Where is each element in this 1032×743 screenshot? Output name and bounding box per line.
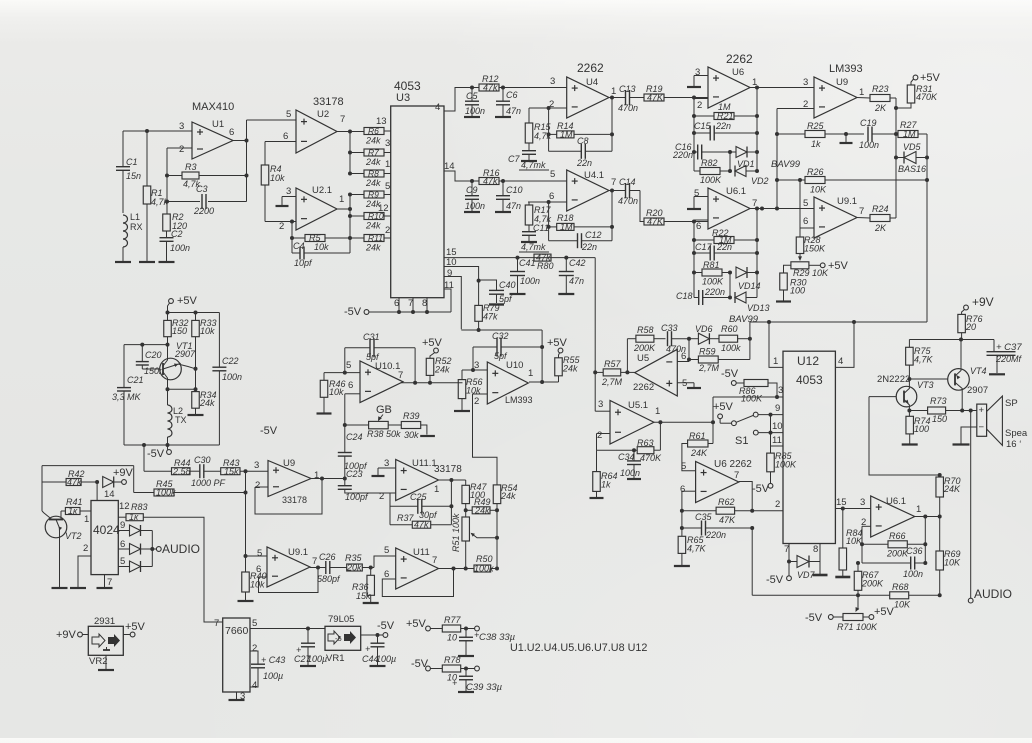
feedback riser left U5 bbox=[625, 339, 629, 375]
svg-text:C3: C3 bbox=[196, 184, 208, 194]
op-amp U6 2262 bbox=[695, 52, 757, 111]
svg-text:7: 7 bbox=[398, 370, 403, 381]
-5V terminal R85 bbox=[752, 483, 773, 495]
svg-text:30k: 30k bbox=[404, 430, 419, 440]
wire VT3 emitter node bbox=[907, 409, 911, 417]
svg-text:LM393: LM393 bbox=[505, 395, 533, 405]
wire U12 pin10 row bbox=[753, 421, 783, 435]
svg-text:R77: R77 bbox=[444, 615, 462, 625]
wire row pin14 to U4.1 bbox=[470, 169, 567, 183]
node column R25/R26 bbox=[775, 109, 779, 211]
IC U3 4053 bbox=[391, 79, 444, 298]
node column U6.1 right bbox=[755, 209, 759, 298]
svg-text:U3: U3 bbox=[396, 92, 410, 104]
svg-text:2,7M: 2,7M bbox=[601, 377, 623, 387]
svg-text:9: 9 bbox=[775, 403, 780, 414]
resistor R55 bbox=[555, 355, 581, 382]
svg-text:+9V: +9V bbox=[56, 629, 77, 641]
svg-text:1: 1 bbox=[528, 368, 533, 379]
capacitor C24 bbox=[338, 425, 368, 481]
resistor R40 bbox=[238, 556, 267, 601]
svg-text:R83: R83 bbox=[131, 502, 148, 512]
svg-text:2: 2 bbox=[255, 480, 260, 491]
svg-text:2N2222: 2N2222 bbox=[877, 374, 910, 385]
svg-text:-5V: -5V bbox=[805, 612, 823, 624]
svg-text:2262: 2262 bbox=[726, 52, 753, 66]
svg-text:R62: R62 bbox=[718, 497, 735, 507]
label BAV99 mid bbox=[0, 0, 1, 1]
resistor R4 bbox=[261, 142, 285, 222]
capacitor C15 bbox=[694, 121, 757, 141]
svg-text:47n: 47n bbox=[506, 201, 521, 211]
resistor R57 bbox=[595, 359, 635, 387]
svg-text:VD5: VD5 bbox=[903, 142, 922, 152]
wire U2 minus input bbox=[265, 141, 296, 143]
ground 4024 pin7 bbox=[97, 575, 113, 588]
wire VD pair link lower bbox=[728, 271, 732, 300]
wire U5.1 output bbox=[654, 420, 715, 424]
svg-text:VR2: VR2 bbox=[89, 656, 107, 667]
svg-text:2.58: 2.58 bbox=[172, 466, 191, 476]
svg-text:3: 3 bbox=[695, 67, 700, 78]
resistor R63 bbox=[597, 438, 663, 463]
wire U6 minus input bbox=[694, 98, 708, 100]
capacitor C12 bbox=[549, 230, 612, 252]
wire U10.1 output bbox=[401, 381, 463, 385]
resistor R83 bbox=[118, 501, 147, 522]
svg-text:+5V: +5V bbox=[920, 72, 941, 84]
svg-text:R80: R80 bbox=[537, 261, 554, 271]
svg-text:-5V: -5V bbox=[344, 306, 362, 318]
svg-text:15k: 15k bbox=[224, 466, 239, 476]
ground for R1 bbox=[139, 261, 155, 263]
svg-text:7: 7 bbox=[734, 470, 739, 481]
svg-text:15k: 15k bbox=[356, 591, 371, 601]
ground for C2 bbox=[159, 261, 175, 263]
svg-text:-5V: -5V bbox=[260, 425, 278, 437]
svg-text:9: 9 bbox=[120, 520, 125, 531]
svg-text:3: 3 bbox=[179, 121, 184, 132]
wire U2.1 output bus bbox=[337, 193, 352, 239]
capacitor C10 bbox=[495, 181, 523, 212]
svg-text:22n: 22n bbox=[581, 242, 597, 252]
svg-text:R24: R24 bbox=[872, 204, 889, 214]
wire row to R9 bbox=[350, 194, 364, 196]
wire control row to U12 pins 1 and 4 bbox=[750, 320, 927, 339]
wire U12 pin11 row bbox=[771, 435, 784, 446]
svg-text:2907: 2907 bbox=[174, 349, 196, 359]
resistor R7 bbox=[364, 138, 391, 167]
node column A right bbox=[894, 98, 898, 218]
svg-text:3: 3 bbox=[384, 458, 389, 469]
wire U9 minus input bbox=[777, 108, 814, 110]
svg-text:C14: C14 bbox=[619, 177, 636, 187]
ground at U2.1 plus input bbox=[276, 197, 297, 207]
diode to +9V bbox=[103, 467, 134, 500]
capacitor C27 bbox=[294, 629, 327, 667]
svg-text:100n: 100n bbox=[859, 140, 879, 150]
wire oscillator top rail bbox=[166, 311, 220, 315]
svg-text:1k: 1k bbox=[811, 139, 821, 149]
svg-text:R73: R73 bbox=[930, 396, 947, 406]
ground at U6.1 plus input bbox=[687, 197, 708, 210]
svg-text:100n: 100n bbox=[903, 569, 923, 579]
svg-text:R78: R78 bbox=[444, 655, 461, 665]
svg-text:6: 6 bbox=[348, 380, 353, 391]
wire U10 minus input bbox=[473, 394, 498, 485]
wire U4 feedback bbox=[610, 96, 614, 152]
op-amp U11 bbox=[384, 545, 439, 589]
svg-text:3: 3 bbox=[598, 399, 603, 410]
svg-text:6: 6 bbox=[120, 539, 125, 550]
label -5V floating bbox=[260, 425, 278, 437]
svg-text:4053: 4053 bbox=[394, 79, 421, 93]
wire C20 to base bbox=[142, 368, 159, 370]
capacitor C26 bbox=[317, 552, 347, 584]
bus B vertical bbox=[593, 258, 597, 412]
resistor R1 bbox=[143, 131, 168, 262]
svg-text:1M: 1M bbox=[560, 129, 573, 139]
wire VD pair link bbox=[728, 150, 732, 173]
svg-text:C25: C25 bbox=[410, 492, 428, 502]
capacitor C5 bbox=[464, 88, 485, 118]
wire U3 pin 10 bbox=[444, 257, 481, 305]
svg-text:5: 5 bbox=[346, 360, 351, 371]
resistor R3 bbox=[167, 162, 247, 189]
svg-text:C31: C31 bbox=[363, 332, 380, 342]
wire input row bbox=[123, 129, 192, 133]
svg-text:VT2: VT2 bbox=[65, 531, 82, 541]
svg-text:VD13: VD13 bbox=[747, 303, 770, 313]
svg-text:U9.1: U9.1 bbox=[837, 196, 857, 207]
transistor VT3 2N2222 bbox=[877, 374, 934, 411]
wire VT1 emitter to R33 node bbox=[178, 364, 196, 369]
potentiometer R51 bbox=[451, 513, 497, 569]
wire U9.1 mid output bbox=[310, 567, 326, 569]
wire U2.1 minus input bbox=[265, 220, 296, 224]
node column U6.1 left bbox=[692, 220, 696, 298]
node column U6 right bbox=[755, 88, 759, 172]
IC U12 4053 bbox=[783, 351, 835, 543]
svg-text:C42: C42 bbox=[569, 258, 586, 268]
resistor R31 bbox=[896, 84, 938, 108]
svg-text:15n: 15n bbox=[126, 171, 141, 181]
svg-text:Spea: Spea bbox=[1005, 428, 1028, 439]
resistor R49 bbox=[466, 497, 497, 515]
svg-text:C39 33µ: C39 33µ bbox=[466, 682, 503, 693]
svg-text:4024: 4024 bbox=[93, 523, 120, 537]
wire TX to filter riser bbox=[142, 443, 146, 471]
svg-text:100n: 100n bbox=[465, 106, 485, 116]
riser to U12 pin3 row bbox=[712, 397, 714, 444]
svg-text:2,7M: 2,7M bbox=[698, 363, 720, 373]
resistor R74 bbox=[902, 416, 931, 445]
wire row to R8 bbox=[348, 172, 364, 176]
resistor R75 bbox=[906, 340, 934, 382]
resistor R37 bbox=[390, 513, 451, 530]
resistor R56 bbox=[454, 370, 483, 411]
U9.1 mid feedback loop bbox=[259, 566, 321, 593]
svg-text:R29 10K: R29 10K bbox=[793, 268, 829, 278]
+9V terminal bbox=[962, 295, 994, 314]
svg-text:10K: 10K bbox=[944, 558, 961, 568]
node column mid bbox=[244, 471, 248, 556]
svg-text:30pf: 30pf bbox=[419, 510, 438, 520]
svg-text:100n: 100n bbox=[520, 276, 540, 286]
svg-text:100k: 100k bbox=[721, 343, 741, 353]
wire U3 pin 9 bbox=[444, 268, 461, 329]
svg-text:5pf: 5pf bbox=[499, 294, 513, 304]
svg-text:C4: C4 bbox=[293, 241, 305, 251]
svg-text:100k: 100k bbox=[474, 564, 494, 574]
svg-text:R7: R7 bbox=[368, 148, 379, 158]
resistor R84 bbox=[839, 507, 863, 578]
speaker SP bbox=[977, 396, 1028, 450]
svg-text:U2: U2 bbox=[317, 109, 329, 120]
svg-text:R51 100k: R51 100k bbox=[451, 513, 461, 552]
svg-text:10K: 10K bbox=[810, 185, 827, 195]
svg-text:3: 3 bbox=[254, 460, 259, 471]
resistor R68 bbox=[890, 582, 911, 610]
wire 4024 pin14 bbox=[96, 482, 98, 501]
capacitor C20 bbox=[136, 345, 164, 376]
diode VD5 BAS16 bbox=[896, 142, 929, 174]
resistor R28 bbox=[796, 228, 826, 254]
svg-text:C21: C21 bbox=[127, 375, 144, 385]
svg-text:U4.1: U4.1 bbox=[584, 170, 604, 181]
svg-text:8: 8 bbox=[813, 544, 818, 555]
op-amp U9 LM393 bbox=[803, 63, 864, 118]
+9V terminal VR2 bbox=[56, 629, 88, 641]
capacitor C40 bbox=[479, 280, 516, 305]
op-amp U9.1 mid bbox=[256, 547, 317, 587]
caption text bbox=[510, 642, 647, 654]
resistor R46 bbox=[317, 373, 346, 414]
capacitor C42 bbox=[558, 258, 585, 294]
U9 mid feedback loop bbox=[255, 477, 324, 515]
capacitor C44 bbox=[362, 635, 396, 666]
capacitor C30 bbox=[190, 455, 226, 488]
wire U6.1 low output bbox=[915, 515, 942, 519]
resistor R42 bbox=[42, 469, 99, 487]
svg-text:R8: R8 bbox=[368, 169, 379, 179]
capacitor C3 bbox=[167, 184, 247, 216]
capacitor C41 bbox=[510, 258, 541, 294]
svg-text:+5V: +5V bbox=[125, 621, 146, 633]
svg-text:150: 150 bbox=[932, 414, 947, 424]
resistor R8 bbox=[364, 159, 391, 188]
svg-text:33178: 33178 bbox=[313, 96, 344, 108]
wire U2 plus input bbox=[247, 119, 297, 121]
capacitor C2 bbox=[160, 229, 191, 262]
svg-text:C5: C5 bbox=[466, 91, 478, 101]
svg-text:24k: 24k bbox=[365, 136, 381, 146]
svg-text:+ C43: + C43 bbox=[261, 655, 285, 665]
svg-text:4,7K: 4,7K bbox=[687, 544, 707, 554]
capacitor C8 bbox=[549, 136, 612, 168]
wire U3 pin 14 bbox=[444, 161, 479, 181]
wire U12 pin7 bbox=[784, 544, 791, 564]
svg-text:VD6: VD6 bbox=[695, 324, 713, 334]
svg-text:C36: C36 bbox=[906, 546, 923, 556]
svg-text:2: 2 bbox=[83, 543, 88, 554]
svg-text:6: 6 bbox=[394, 298, 399, 309]
ground pin8 bbox=[813, 574, 828, 577]
resistor R64 bbox=[590, 450, 618, 498]
svg-text:33178: 33178 bbox=[282, 495, 307, 505]
capacitor C25 bbox=[390, 492, 451, 520]
svg-text:100K: 100K bbox=[775, 460, 797, 470]
svg-text:VD2: VD2 bbox=[751, 176, 769, 186]
diode VD2 bbox=[735, 166, 769, 187]
svg-text:220n: 220n bbox=[672, 150, 693, 160]
svg-text:100µ: 100µ bbox=[376, 654, 396, 664]
U11 feedback loop bbox=[382, 567, 455, 597]
svg-text:-5V: -5V bbox=[377, 620, 395, 632]
capacitor C32 bbox=[471, 331, 544, 372]
svg-text:10: 10 bbox=[446, 257, 457, 268]
capacitor C9 bbox=[464, 181, 485, 212]
svg-text:24k: 24k bbox=[365, 243, 381, 253]
svg-text:4,7K: 4,7K bbox=[914, 355, 934, 365]
wire 4024 pin2 ground bbox=[70, 543, 91, 588]
IC VR2 2931 bbox=[88, 616, 123, 667]
svg-text:6: 6 bbox=[229, 127, 234, 138]
svg-text:LM393: LM393 bbox=[829, 63, 863, 75]
svg-text:C35: C35 bbox=[695, 512, 713, 522]
svg-text:-5V: -5V bbox=[766, 574, 784, 586]
label BAV99 upper bbox=[771, 159, 801, 170]
svg-text:U5.1: U5.1 bbox=[628, 400, 648, 411]
svg-text:C30: C30 bbox=[194, 455, 211, 465]
op-amp U5 2262 facing left bbox=[633, 349, 687, 396]
svg-text:+5V: +5V bbox=[547, 337, 568, 349]
svg-text:C40: C40 bbox=[499, 280, 516, 290]
capacitor C31 bbox=[345, 332, 417, 385]
resistor R36 bbox=[352, 568, 379, 604]
svg-text:6: 6 bbox=[283, 131, 288, 142]
wire U4 minus input bbox=[529, 106, 567, 151]
svg-text:220n: 220n bbox=[705, 530, 726, 540]
capacitor C11 bbox=[519, 223, 549, 252]
wire U10 output bbox=[529, 330, 559, 384]
svg-text:R39: R39 bbox=[403, 411, 420, 421]
U5.1 feedback riser bbox=[659, 422, 661, 450]
svg-text:2: 2 bbox=[252, 643, 257, 654]
wire U11.1 output bbox=[439, 479, 466, 481]
wire base rail bbox=[124, 343, 170, 347]
svg-text:3: 3 bbox=[286, 186, 291, 197]
svg-text:14: 14 bbox=[104, 489, 115, 500]
capacitor C35 bbox=[682, 512, 754, 540]
svg-text:4053: 4053 bbox=[796, 373, 823, 387]
svg-text:+9V: +9V bbox=[972, 295, 994, 309]
svg-text:4,7mk: 4,7mk bbox=[521, 160, 546, 170]
resistor R16 bbox=[479, 168, 500, 186]
svg-text:47k: 47k bbox=[483, 83, 498, 93]
svg-text:24k: 24k bbox=[199, 398, 215, 408]
svg-text:16 ‘: 16 ‘ bbox=[1006, 439, 1021, 450]
svg-text:1M: 1M bbox=[560, 222, 573, 232]
svg-text:470n: 470n bbox=[618, 196, 638, 206]
wire to U11 plus bbox=[371, 556, 396, 568]
capacitor C22 bbox=[212, 313, 242, 446]
wire oscillator bottom rail bbox=[124, 443, 219, 447]
svg-text:C34: C34 bbox=[618, 452, 635, 462]
op-amp U2.1 bbox=[279, 185, 344, 232]
svg-text:100K: 100K bbox=[700, 175, 722, 185]
wire U12 pin9 row bbox=[758, 403, 783, 417]
svg-text:−: − bbox=[979, 422, 985, 433]
resistor R11 bbox=[364, 225, 391, 253]
diode D output 5 bbox=[118, 556, 152, 572]
node column left bbox=[165, 148, 169, 214]
resistor R73 bbox=[909, 396, 976, 424]
svg-text:5: 5 bbox=[252, 618, 257, 629]
svg-text:R71 100K: R71 100K bbox=[837, 622, 878, 632]
ground at U6 plus input bbox=[687, 76, 708, 88]
svg-text:22n: 22n bbox=[576, 158, 592, 168]
node column B right bbox=[925, 134, 929, 322]
svg-text:R63: R63 bbox=[637, 438, 654, 448]
svg-text:+: + bbox=[365, 644, 370, 654]
wire U6 output bbox=[750, 86, 814, 90]
svg-text:+5V: +5V bbox=[406, 618, 427, 630]
resistor R23 bbox=[857, 84, 896, 113]
ground for L1/C1 bbox=[115, 261, 131, 263]
svg-text:24K: 24K bbox=[943, 484, 961, 494]
svg-text:5: 5 bbox=[803, 198, 808, 209]
diode VD7 bbox=[789, 556, 820, 581]
svg-text:100K: 100K bbox=[741, 394, 763, 404]
svg-text:C8: C8 bbox=[577, 136, 589, 146]
capacitor C16 bbox=[672, 142, 736, 160]
svg-text:11: 11 bbox=[444, 280, 454, 291]
svg-text:C41: C41 bbox=[519, 258, 536, 268]
svg-text:C12: C12 bbox=[585, 230, 602, 240]
feedback column to R68 row bbox=[751, 528, 753, 595]
svg-text:5: 5 bbox=[286, 109, 291, 120]
svg-text:100pf: 100pf bbox=[345, 492, 369, 502]
svg-text:GB: GB bbox=[376, 404, 392, 416]
svg-text:6: 6 bbox=[803, 216, 808, 227]
svg-text:10: 10 bbox=[447, 633, 457, 643]
ground at U5 plus input bbox=[677, 383, 701, 388]
resistor R61 bbox=[688, 431, 713, 458]
wire VT3 base from feedback bbox=[869, 397, 942, 477]
svg-text:U10.1: U10.1 bbox=[375, 361, 400, 372]
resistor R14 bbox=[549, 121, 614, 139]
svg-text:3: 3 bbox=[803, 77, 808, 88]
wire U5.1 plus input bbox=[595, 410, 610, 412]
wire U2 output bus bbox=[337, 130, 364, 174]
svg-text:20k: 20k bbox=[346, 563, 362, 573]
op-amp U1 MAX410 bbox=[179, 101, 234, 159]
svg-text:20: 20 bbox=[965, 322, 976, 332]
resistor R58 bbox=[627, 325, 665, 353]
svg-text:+5V: +5V bbox=[874, 606, 895, 618]
svg-text:6: 6 bbox=[680, 484, 685, 495]
riser C33 to U5 minus bbox=[687, 339, 691, 362]
svg-text:C2: C2 bbox=[171, 229, 183, 239]
svg-text:TX: TX bbox=[175, 415, 187, 425]
svg-text:5pf: 5pf bbox=[366, 352, 380, 362]
wire U12 pin3 row bbox=[713, 385, 783, 399]
resistor R79 bbox=[475, 303, 500, 329]
wire VT4 base row bbox=[909, 378, 947, 380]
resistor R82 bbox=[694, 158, 730, 185]
+5V terminal oscillator bbox=[168, 295, 198, 313]
